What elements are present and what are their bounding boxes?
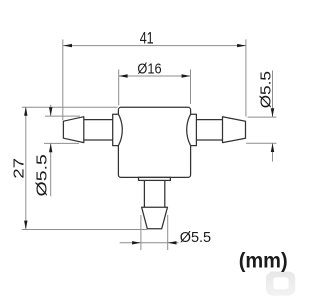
dim 41 arrow right [237, 44, 246, 47]
dim O16 arrow right [182, 74, 191, 77]
dim O5.5 bottom arrow left [132, 241, 141, 244]
dim 41 extension line left [62, 39, 64, 120]
dim O5.5 left extension bottom [44, 142, 79, 144]
body [118, 107, 190, 177]
dim 27 extension line bottom [22, 229, 147, 231]
dim O16 line [119, 75, 191, 77]
dim O5.5 right line bottom tail [272, 143, 274, 161]
dim O5.5 bottom extension left [140, 215, 142, 250]
dim O5.5 left arrow bottom [49, 143, 52, 152]
dim 27 extension line top [22, 106, 118, 108]
dim O5.5 right line top tail [272, 71, 274, 118]
right stem lines [196, 120, 223, 140]
dim O5.5 left arrow top [49, 107, 52, 116]
dim O5.5 bottom line [120, 242, 179, 244]
left stem fill [84, 120, 114, 140]
svg-text:27: 27 [11, 158, 28, 179]
left barb cone [63, 117, 83, 143]
dim O16 extension line right [190, 69, 192, 104]
bottom barb cone [142, 207, 168, 229]
dim O5.5 left extension top [45, 115, 80, 117]
bottom stem lines [144, 180, 164, 207]
right flange [187, 114, 197, 145]
dim 41 line [63, 45, 246, 47]
left flange [113, 114, 123, 145]
dim 27 arrow top [24, 107, 27, 116]
dim 27 line [25, 107, 27, 229]
svg-text:Ø5.5: Ø5.5 [257, 71, 274, 108]
svg-text:(mm): (mm) [239, 249, 288, 273]
dim 41 extension line right [245, 39, 247, 116]
dim O5.5 right extension top [248, 116, 277, 118]
watermark logo D [266, 272, 295, 296]
right barb cone [223, 117, 246, 143]
dim O5.5 right arrow bottom [271, 143, 274, 152]
dim O16 extension line left [118, 69, 120, 105]
svg-text:41: 41 [140, 28, 154, 47]
dim O5.5 left line top tail [50, 105, 52, 116]
right stem fill [196, 120, 223, 140]
svg-text:Ø16: Ø16 [137, 61, 161, 78]
dim 27 arrow bottom [24, 221, 27, 230]
bottom stem fill [144, 180, 164, 207]
dim O5.5 right extension bottom [246, 142, 277, 144]
svg-text:Ø5.5: Ø5.5 [180, 229, 211, 246]
svg-text:Ø5.5: Ø5.5 [33, 154, 50, 196]
dim O5.5 bottom extension right [167, 215, 169, 250]
dim O5.5 right arrow top [271, 108, 274, 117]
bottom flange band [139, 177, 171, 180]
dim O16 arrow left [119, 74, 128, 77]
left stem lines [84, 120, 113, 140]
dim O5.5 bottom arrow right [168, 241, 177, 244]
dim O5.5 left line bottom tail [50, 143, 52, 196]
dim 41 arrow left [63, 44, 72, 47]
